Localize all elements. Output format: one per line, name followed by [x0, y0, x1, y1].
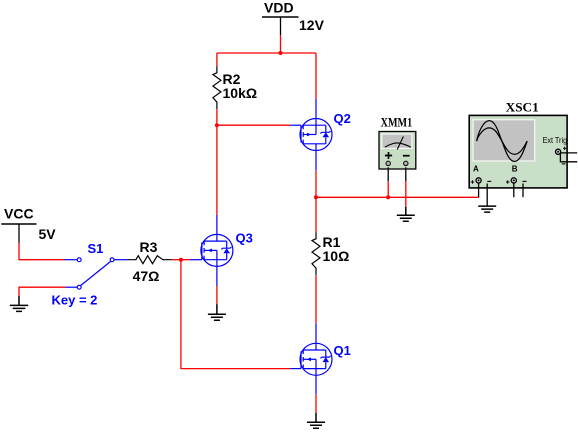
wire XSC1 ext trig stubs [560, 153, 577, 162]
switch S1 [64, 258, 127, 289]
wire Q2 source down [315, 170, 317, 197]
wire ground to switch [19, 287, 65, 296]
wire R1 to Q1 drain [315, 275, 317, 323]
wire Q1 source down [315, 394, 317, 413]
svg-text:XMM1: XMM1 [381, 115, 413, 130]
svg-text:VDD: VDD [264, 0, 294, 15]
svg-text:Q3: Q3 [236, 231, 253, 246]
wire junction down to Q1 gate [181, 260, 290, 369]
node junction XMM1 bus [386, 195, 390, 199]
resistor R2 [213, 66, 257, 109]
svg-text:B: B [512, 165, 518, 174]
resistor R1 [312, 232, 349, 275]
wire XSC1 B plus stub [513, 183, 515, 197]
power VCC [1, 205, 56, 243]
ground XSC1 A [478, 206, 496, 212]
transistor Q2 [290, 99, 332, 171]
wire output bus [316, 196, 479, 198]
wire VCC to switch [19, 243, 64, 260]
wire Q3 source down [216, 286, 218, 304]
wire bus to R1 [315, 197, 317, 232]
node junction Q2 source bus [314, 195, 318, 199]
transistor Q1 [290, 323, 332, 394]
oscilloscope XSC1 [469, 99, 567, 188]
wire junction down to Q3 drain [216, 125, 218, 215]
wire junction to Q3 gate [181, 259, 190, 261]
node junction R3 gate [179, 258, 183, 262]
wire XSC1 B minus stub [522, 184, 524, 198]
power VDD [262, 0, 325, 35]
svg-text:Ext Trig: Ext Trig [543, 136, 568, 145]
svg-text:Q2: Q2 [334, 111, 351, 126]
ground XMM1 [397, 207, 415, 222]
transistor Q3 [190, 215, 233, 286]
svg-text:Key = 2: Key = 2 [52, 293, 98, 308]
svg-text:10kΩ: 10kΩ [223, 85, 258, 101]
wire XSC1 A plus stub [478, 183, 480, 197]
ground Q3 source [208, 304, 226, 320]
svg-text:12V: 12V [299, 17, 325, 33]
wire top rail [217, 52, 316, 54]
svg-text:VCC: VCC [4, 205, 34, 221]
svg-text:A: A [473, 165, 479, 174]
wire junction to Q2 gate [217, 124, 290, 126]
node junction R2 bottom [215, 123, 219, 127]
wire R2 to junction [216, 109, 218, 125]
multimeter XMM1 [379, 115, 416, 169]
svg-text:47Ω: 47Ω [133, 268, 160, 284]
wire rail to Q2 drain [315, 53, 317, 99]
wire XSC1 A minus stub [486, 184, 488, 207]
wire XMM1 minus lead [405, 167, 407, 207]
svg-text:Q1: Q1 [334, 343, 351, 358]
svg-text:5V: 5V [39, 226, 57, 242]
svg-text:S1: S1 [88, 241, 104, 256]
ground S1 lower throw [10, 296, 28, 311]
resistor R3 [127, 239, 171, 284]
wire VDD stem [280, 35, 282, 53]
svg-text:R3: R3 [140, 239, 158, 255]
wire R3 to junction [172, 259, 181, 261]
wire rail to R2 [216, 53, 218, 66]
svg-text:10Ω: 10Ω [323, 248, 350, 264]
svg-text:XSC1: XSC1 [506, 99, 539, 114]
wire XMM1 plus lead [387, 167, 389, 197]
ground Q1 source [307, 413, 325, 428]
node junction VDD rail [279, 51, 283, 55]
